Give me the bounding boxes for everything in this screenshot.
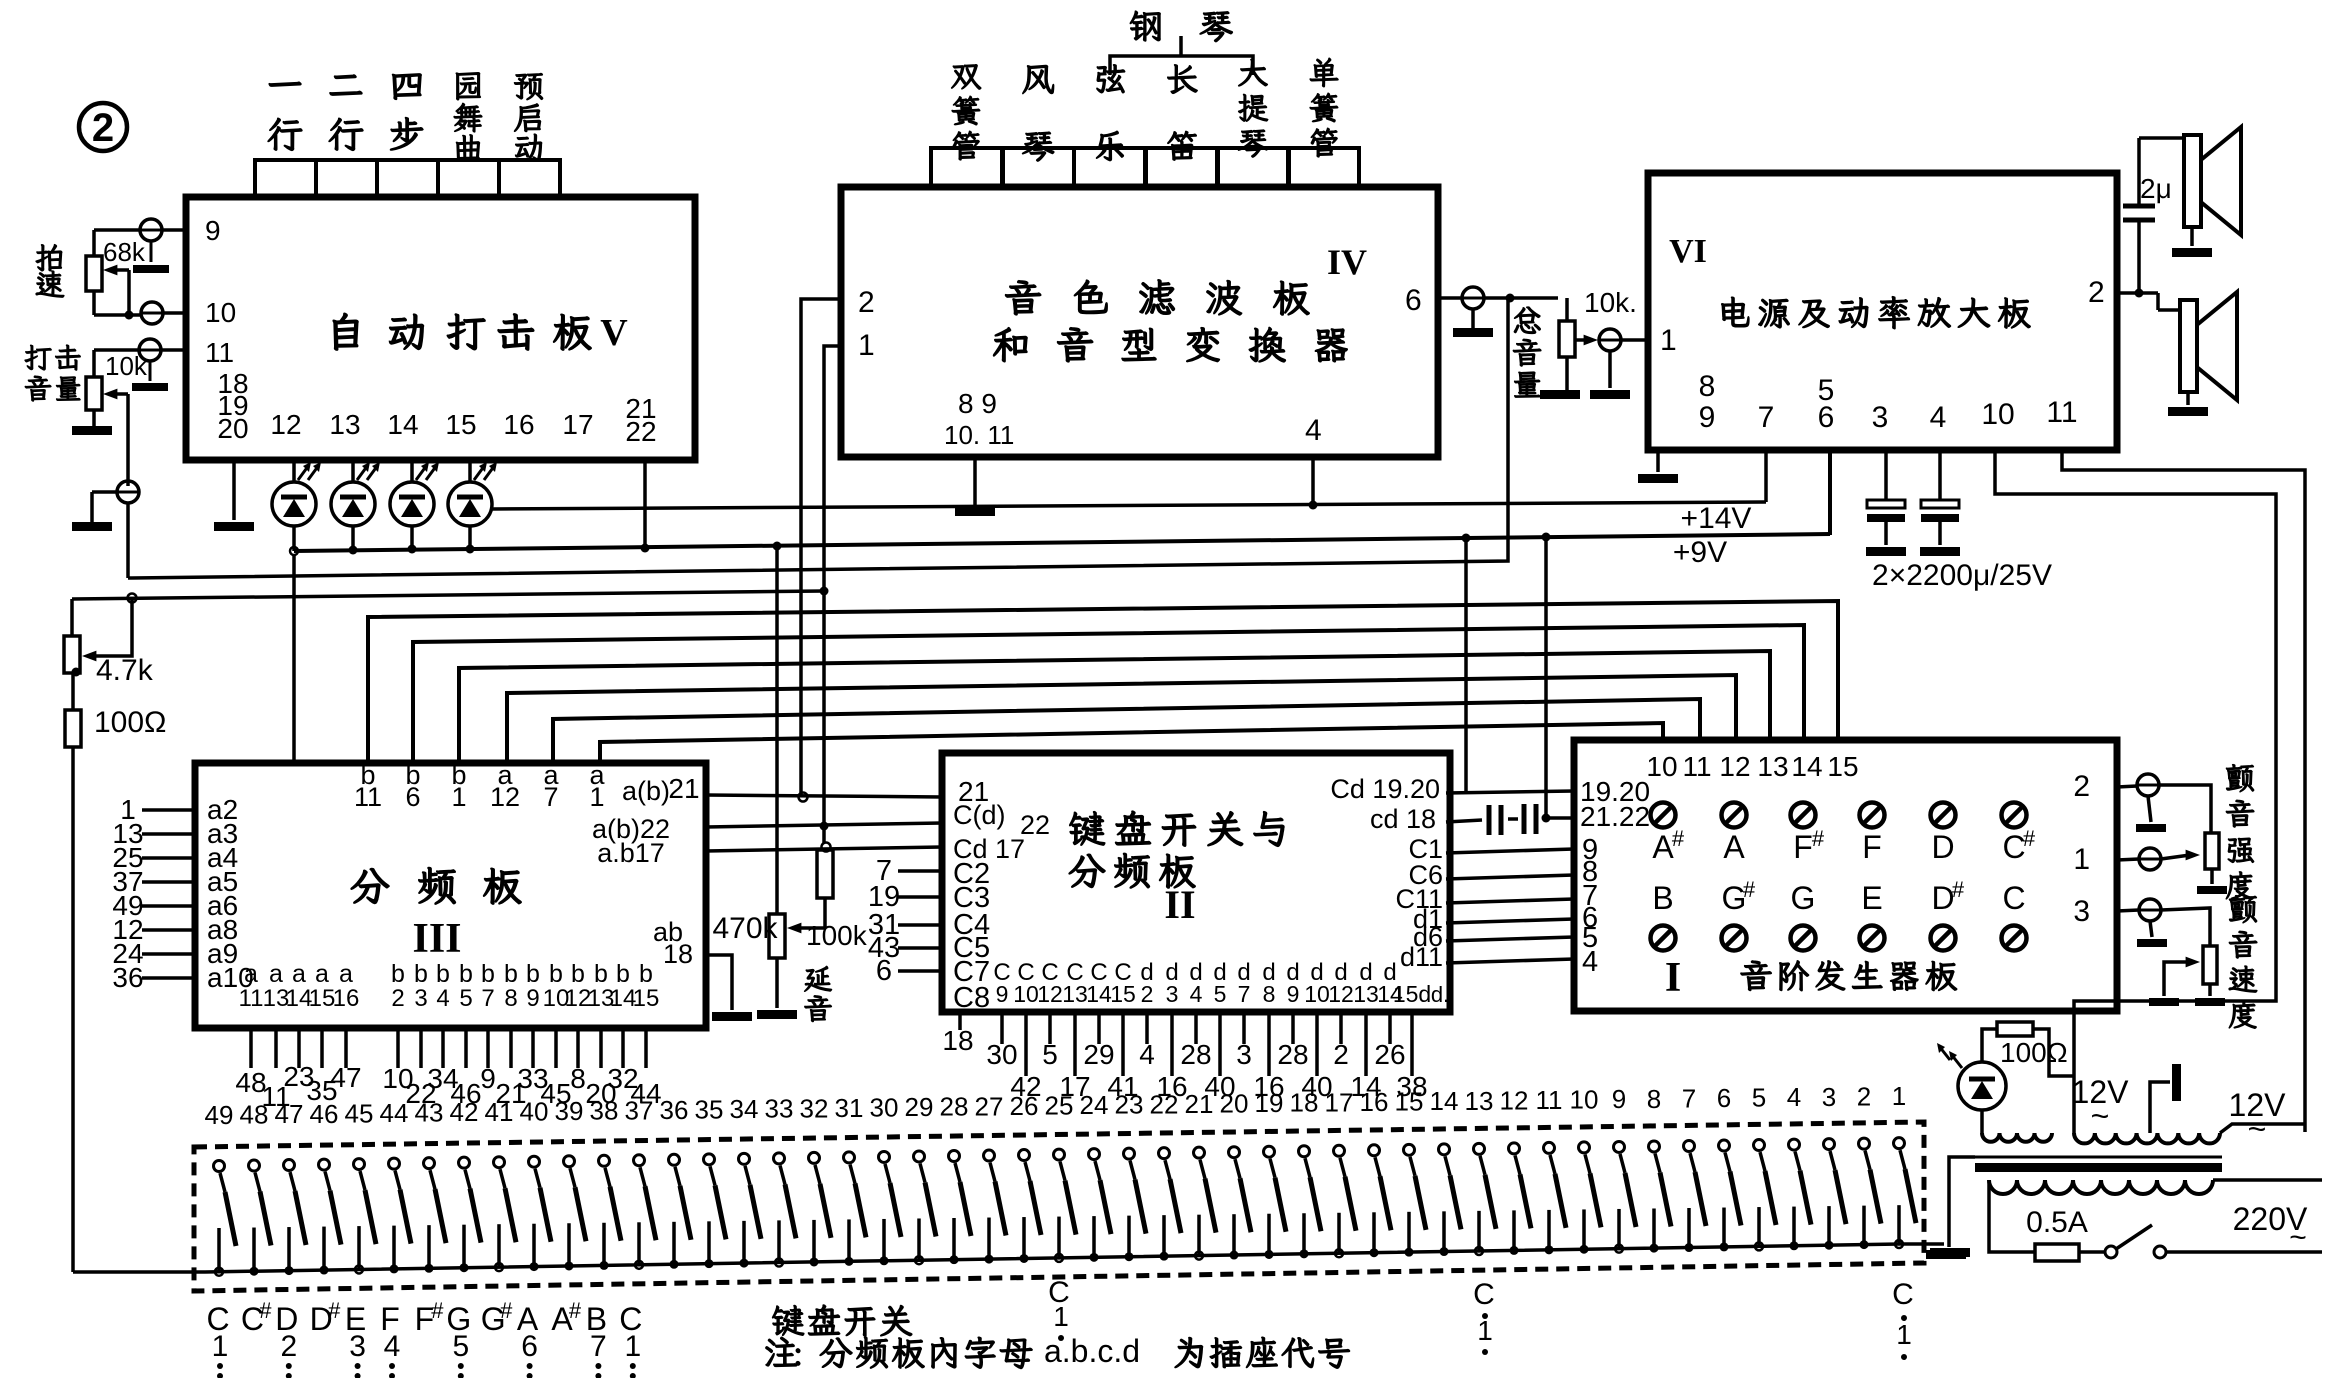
svg-text:31: 31 <box>835 1093 864 1123</box>
label 键盘开关 <box>772 1305 911 1336</box>
svg-text:17: 17 <box>1325 1087 1354 1117</box>
svg-text:7: 7 <box>1238 981 1251 1007</box>
wire core to ground <box>1926 1157 1975 1259</box>
wire pin3 jack to vibrato speed pot <box>2161 908 2210 946</box>
svg-text:#: # <box>431 1298 444 1323</box>
svg-text:a: a <box>315 960 329 988</box>
jack J3 pin11 <box>132 339 186 391</box>
svg-text:17: 17 <box>562 409 593 440</box>
svg-text:b: b <box>526 960 540 988</box>
transformer T secondary 12V winding <box>2074 1133 2220 1143</box>
block II 键盘开关与分频板 (keyboard switch + divider) <box>942 753 1450 1012</box>
label +14V <box>1681 502 1752 535</box>
svg-text:19: 19 <box>1255 1088 1284 1118</box>
svg-text:b: b <box>414 960 428 988</box>
svg-text:3: 3 <box>1236 1039 1252 1070</box>
svg-text:1: 1 <box>1896 1319 1912 1350</box>
svg-text:10: 10 <box>205 297 236 328</box>
wire d11-4 <box>1446 959 1574 963</box>
label 总音量 vertical <box>1513 307 1541 397</box>
svg-text:5: 5 <box>1042 1039 1058 1070</box>
block V pushbuttons (5) on top <box>255 160 560 197</box>
svg-text:42: 42 <box>450 1097 479 1127</box>
svg-text:#: # <box>1672 826 1685 851</box>
svg-text:12: 12 <box>270 409 301 440</box>
switch contacts x49 <box>214 1138 1917 1276</box>
svg-text:+14V: +14V <box>1681 502 1752 535</box>
svg-text:30: 30 <box>986 1039 1017 1070</box>
svg-text:4: 4 <box>1582 946 1598 978</box>
svg-text:100k: 100k <box>806 920 868 951</box>
svg-text:47: 47 <box>275 1099 304 1129</box>
svg-text:35: 35 <box>695 1094 724 1124</box>
block II bottom pin labels C9-C15 d2-d15 <box>993 959 1449 1007</box>
svg-text:#: # <box>328 1298 341 1323</box>
svg-text:4.7k: 4.7k <box>96 654 154 687</box>
svg-text:F: F <box>1793 829 1813 865</box>
svg-text:8: 8 <box>1699 370 1716 403</box>
svg-text:49: 49 <box>205 1100 234 1130</box>
svg-text:a(b): a(b) <box>622 776 670 806</box>
speaker SP1 <box>2172 127 2241 257</box>
svg-text:10: 10 <box>1013 981 1039 1007</box>
block IV pin labels <box>858 284 1422 450</box>
svg-text:III: III <box>412 916 461 962</box>
svg-text:22: 22 <box>1150 1089 1179 1119</box>
svg-text:10: 10 <box>1646 751 1677 782</box>
speaker SP2 <box>2168 292 2237 416</box>
label 220V~ <box>2233 1201 2308 1254</box>
LED D2 <box>331 460 380 551</box>
svg-text:b: b <box>481 960 495 988</box>
wire a.b17 to block II Cd17 <box>706 847 942 851</box>
svg-text:9: 9 <box>996 981 1009 1007</box>
svg-text:1: 1 <box>624 1330 641 1363</box>
svg-text:4: 4 <box>1305 414 1322 447</box>
svg-text:~: ~ <box>2289 1221 2307 1254</box>
block III bottom stubs a-group with switch numbers <box>235 1031 361 1112</box>
svg-text:20: 20 <box>1220 1089 1249 1119</box>
LED D5 pilot <box>1937 1043 2006 1110</box>
jack J7 block I pin2 <box>2073 770 2166 832</box>
svg-text:10k.: 10k. <box>1584 287 1637 318</box>
jack J2 pin10 <box>141 302 186 324</box>
block IV pushbuttons (6) on top <box>931 148 1359 187</box>
svg-text:0.5A: 0.5A <box>2026 1206 2088 1239</box>
svg-text:11: 11 <box>1536 1085 1563 1115</box>
svg-text:2: 2 <box>858 286 875 319</box>
svg-text:#: # <box>500 1298 513 1323</box>
svg-text:8: 8 <box>1647 1084 1661 1114</box>
wire C11-7 <box>1446 899 1574 903</box>
svg-text:15: 15 <box>1110 981 1136 1007</box>
LED D1 <box>272 460 321 551</box>
svg-text:1: 1 <box>1660 324 1677 357</box>
wire d1-6 <box>1446 919 1574 923</box>
wire jack J4 down to bus L2 <box>128 503 132 578</box>
svg-text:#: # <box>569 1298 582 1323</box>
svg-text:b: b <box>594 960 608 988</box>
resistor 100R pilot <box>1997 1022 2068 1068</box>
svg-text:1: 1 <box>212 1330 229 1363</box>
svg-text:1: 1 <box>858 329 875 362</box>
wire a(b)22 to block II C(d)22 <box>706 823 942 827</box>
svg-text:b: b <box>616 960 630 988</box>
wire LED D1 branch down to block III <box>292 555 296 763</box>
svg-text:a: a <box>244 960 258 988</box>
svg-text:4: 4 <box>384 1330 401 1363</box>
block I trimmers bottom row with note labels <box>1651 877 2027 951</box>
resistor 100R <box>65 706 166 747</box>
block III bottom pin labels b2-b15 <box>391 960 659 1012</box>
svg-text:8: 8 <box>570 1063 586 1094</box>
block I top pin labels 10-15 <box>1646 751 1858 782</box>
svg-text:14: 14 <box>1791 751 1822 782</box>
svg-text:IV: IV <box>1327 242 1367 282</box>
svg-text:29: 29 <box>905 1092 934 1122</box>
transformer T secondary pilot winding <box>1982 1133 2052 1142</box>
label C1 right keyboard <box>1473 1278 1495 1355</box>
svg-text:38: 38 <box>590 1096 619 1126</box>
svg-text:5: 5 <box>452 1330 469 1363</box>
label 12V~ right <box>2229 1087 2287 1147</box>
svg-text:16: 16 <box>503 409 534 440</box>
block III bottom pin labels a11-a16 <box>239 960 360 1012</box>
svg-text:15: 15 <box>445 409 476 440</box>
wire pilot LED loop <box>1982 1029 2074 1133</box>
svg-text:6: 6 <box>1717 1083 1731 1113</box>
wire VI pin8/9 to ground <box>1638 450 1678 483</box>
svg-text:12: 12 <box>490 782 520 812</box>
wire bus a7-11 <box>553 699 1700 763</box>
svg-text:14: 14 <box>387 409 418 440</box>
svg-text:7: 7 <box>1682 1083 1696 1113</box>
wire pin20 to ground <box>214 460 254 531</box>
svg-text:18: 18 <box>1290 1088 1319 1118</box>
svg-text:B: B <box>1652 880 1673 916</box>
wire pin2 jack to vibrato depth pot <box>2159 785 2211 833</box>
svg-text:1: 1 <box>451 782 466 812</box>
svg-text:7: 7 <box>1758 401 1775 434</box>
svg-text:36: 36 <box>660 1095 689 1125</box>
svg-text:6: 6 <box>876 955 892 987</box>
svg-text:8: 8 <box>504 985 517 1012</box>
block II left external pins 7 19 31 43 6 <box>868 855 942 987</box>
svg-text:C(d): C(d) <box>953 800 1006 830</box>
resistor 470k <box>712 912 801 1019</box>
svg-text:48: 48 <box>240 1100 269 1130</box>
svg-text:d11: d11 <box>1400 942 1443 972</box>
switch numbers 49-1 <box>205 1081 1907 1130</box>
svg-text:#: # <box>1812 826 1825 851</box>
svg-text:26: 26 <box>1374 1039 1405 1070</box>
svg-text:4: 4 <box>1139 1039 1155 1070</box>
wire +14V rail <box>492 502 1766 509</box>
svg-text:16: 16 <box>1360 1087 1389 1117</box>
svg-text:13: 13 <box>329 409 360 440</box>
block I left pin labels <box>1580 776 1650 978</box>
block III left pin labels a2-a10 <box>112 794 253 993</box>
transformer core <box>1975 1157 2222 1172</box>
svg-text:II: II <box>1164 882 1195 927</box>
svg-text:Cd 19.20: Cd 19.20 <box>1330 774 1440 804</box>
svg-text:11: 11 <box>239 985 264 1012</box>
svg-text:4: 4 <box>436 985 449 1012</box>
svg-text:2: 2 <box>2088 276 2105 309</box>
svg-text:12: 12 <box>1500 1085 1529 1115</box>
svg-text:14: 14 <box>1430 1086 1459 1116</box>
svg-text:44: 44 <box>380 1098 409 1128</box>
svg-text:G: G <box>1791 880 1816 916</box>
svg-text:16: 16 <box>333 985 360 1012</box>
wire C6-8 <box>1446 875 1574 879</box>
svg-text:26: 26 <box>1010 1091 1039 1121</box>
svg-text:b: b <box>549 960 563 988</box>
label C1 mid keyboard <box>1048 1276 1070 1341</box>
svg-text:15: 15 <box>1395 1087 1424 1117</box>
svg-text:b: b <box>459 960 473 988</box>
svg-text:b: b <box>391 960 405 988</box>
wire Cd19.20 to block I 19.20 with +9V drop <box>1446 538 1574 793</box>
block II left pin labels <box>953 776 1050 1014</box>
wire 12V right end <box>2220 1124 2305 1133</box>
svg-text:1: 1 <box>1477 1315 1493 1346</box>
label +9V <box>1673 536 1727 569</box>
svg-text:2: 2 <box>1857 1081 1871 1111</box>
wire VI pin5/6 to +9V rail <box>1828 450 1832 535</box>
page label (2) circled <box>79 103 127 151</box>
svg-text:11: 11 <box>354 782 382 812</box>
svg-text:21: 21 <box>668 773 699 804</box>
svg-text:6: 6 <box>405 782 420 812</box>
svg-text:3: 3 <box>1166 981 1179 1007</box>
wire VI pin10 to 12V winding left <box>1995 450 2276 1133</box>
svg-text:D: D <box>1931 829 1954 865</box>
svg-text:470k: 470k <box>712 912 778 945</box>
svg-text:18: 18 <box>942 1025 973 1056</box>
wire IV pin2 down to line a(b)21 <box>799 299 842 802</box>
svg-text:45: 45 <box>345 1098 374 1128</box>
LED D3 <box>390 460 439 551</box>
label C1 far right <box>1892 1278 1914 1360</box>
capacitor 2u coupling <box>2123 173 2172 220</box>
wire d6-5 <box>1446 937 1574 941</box>
wire VI pin2 to speakers <box>2117 138 2184 310</box>
svg-text:21: 21 <box>1185 1089 1214 1119</box>
block II bottom stubs with numbers <box>942 1012 1427 1102</box>
svg-text:20: 20 <box>217 413 248 444</box>
svg-text:47: 47 <box>330 1062 361 1093</box>
svg-text:21.22: 21.22 <box>1580 801 1650 832</box>
svg-text:V: V <box>600 312 628 354</box>
svg-text:5: 5 <box>1752 1083 1766 1113</box>
LED D4 <box>448 460 497 551</box>
svg-text:32: 32 <box>800 1093 829 1123</box>
svg-text:+9V: +9V <box>1673 536 1727 569</box>
svg-text:2: 2 <box>1333 1039 1349 1070</box>
jack J8 block I pin1 <box>2073 843 2200 876</box>
svg-text:b: b <box>639 960 653 988</box>
svg-text:C: C <box>1892 1278 1914 1311</box>
wire block IV pin4 to +14V <box>1309 457 1318 510</box>
svg-text:I: I <box>1665 955 1681 1001</box>
svg-text:28: 28 <box>1180 1039 1211 1070</box>
svg-text:15d: 15d <box>1393 981 1431 1007</box>
svg-text:10k: 10k <box>105 351 148 381</box>
svg-text:9: 9 <box>205 215 221 246</box>
svg-text:2: 2 <box>391 985 404 1012</box>
wire primary left + fuse 0.5A + switch <box>1989 1180 2322 1261</box>
svg-text:37: 37 <box>625 1095 654 1125</box>
potentiometer 10k 总音量 <box>1540 287 1637 399</box>
svg-text:9: 9 <box>480 1063 496 1094</box>
svg-text:C8: C8 <box>953 982 990 1014</box>
svg-text:12: 12 <box>1328 981 1354 1007</box>
svg-text:a.b17: a.b17 <box>597 838 665 868</box>
svg-text:39: 39 <box>555 1096 584 1126</box>
svg-text:3: 3 <box>414 985 427 1012</box>
wire bus L3 (to 4.7k) <box>72 587 829 603</box>
svg-text:F: F <box>1862 829 1882 865</box>
svg-text:33: 33 <box>765 1094 794 1124</box>
note 注: 分频板内字母a,b,c,d 为插座代号 <box>766 1333 1350 1369</box>
svg-text:28: 28 <box>940 1092 969 1122</box>
wire bus b6-14 <box>413 625 1804 763</box>
svg-text:11: 11 <box>2046 396 2077 429</box>
wire VI pin11 to 12V winding right <box>2062 450 2305 1132</box>
svg-text:3: 3 <box>1822 1082 1836 1112</box>
svg-text:10: 10 <box>1981 398 2014 431</box>
junction dots on L1 <box>290 533 1551 556</box>
block VI pin labels <box>1660 276 2105 434</box>
potentiometer 颤音速度 vibrato speed <box>2149 946 2225 1006</box>
svg-text:11: 11 <box>1682 751 1711 782</box>
svg-text:10: 10 <box>1304 981 1330 1007</box>
capacitor C4 coupling <box>1524 804 1536 834</box>
svg-text:4: 4 <box>1930 401 1947 434</box>
svg-text:8 9: 8 9 <box>958 388 997 419</box>
svg-text:b: b <box>571 960 585 988</box>
svg-text:2: 2 <box>92 106 114 150</box>
svg-text:28: 28 <box>1277 1039 1308 1070</box>
wire bus b1-13 <box>459 651 1770 763</box>
wire cd18 through caps to block I 21.22 <box>1446 537 1574 823</box>
wire block IV pins 8-11 to ground <box>955 457 995 516</box>
label 延音 <box>804 966 831 1021</box>
svg-text:9: 9 <box>1699 401 1716 434</box>
svg-text:15: 15 <box>633 985 660 1012</box>
capacitor C2 2200u <box>1920 450 1960 556</box>
block I 音阶发生器板 (scale generator) <box>1574 740 2117 1011</box>
wire left margin 4.7k chain <box>72 599 73 1272</box>
svg-text:#: # <box>1743 877 1756 902</box>
svg-text:25: 25 <box>1045 1091 1074 1121</box>
wire bus a12-12 <box>507 675 1736 763</box>
svg-text:E: E <box>1861 880 1882 916</box>
wire VI pin7 to +14V rail <box>1764 450 1768 502</box>
svg-text:2×2200μ/25V: 2×2200μ/25V <box>1872 559 2052 592</box>
block II right pin labels <box>1330 774 1443 972</box>
wire +9V / LED bus rail L1 <box>294 450 1830 551</box>
svg-text:22: 22 <box>625 416 656 447</box>
svg-text:7: 7 <box>481 985 494 1012</box>
svg-text:6: 6 <box>521 1330 538 1363</box>
svg-text:40: 40 <box>520 1096 549 1126</box>
svg-text:3: 3 <box>1872 401 1889 434</box>
svg-text:b: b <box>504 960 518 988</box>
svg-text:a: a <box>269 960 283 988</box>
block III bottom stubs b-group with switch numbers <box>382 1031 661 1109</box>
volume pot wiring: jack J5 after IV pin6 <box>1438 287 1558 337</box>
svg-text:~: ~ <box>2248 1111 2267 1147</box>
svg-text:10. 11: 10. 11 <box>944 420 1014 450</box>
block VI 电源及动率放大板 (power supply and amplifier) <box>1648 173 2117 450</box>
svg-text:100Ω: 100Ω <box>94 706 166 739</box>
svg-text:#: # <box>2023 826 2036 851</box>
wire bus b11-15 <box>368 601 1838 763</box>
svg-text:13: 13 <box>1465 1086 1494 1116</box>
block III right pin labels a(b)22 a.b17 <box>592 814 670 868</box>
svg-text:68k: 68k <box>103 237 146 267</box>
resistor 68k 拍速 pot <box>86 230 146 320</box>
button labels 双簧管 风琴 弦乐 长笛 大提琴 单簧管 <box>951 58 1338 161</box>
svg-text:1: 1 <box>589 782 604 812</box>
capacitor C3 coupling <box>1489 805 1501 835</box>
svg-text:9: 9 <box>526 985 539 1012</box>
svg-text:VI: VI <box>1669 233 1707 270</box>
wire ab18 to ground <box>706 955 752 1021</box>
block III top pin labels <box>354 760 700 812</box>
svg-text:6: 6 <box>1405 284 1422 317</box>
svg-text:5: 5 <box>1214 981 1227 1007</box>
transformer T primary 220V winding <box>1989 1180 2213 1194</box>
jack J4 volume out <box>72 481 139 531</box>
svg-text:23: 23 <box>1115 1090 1144 1120</box>
svg-text:41: 41 <box>485 1097 514 1127</box>
svg-text:13: 13 <box>1757 751 1788 782</box>
svg-text:18: 18 <box>663 939 693 969</box>
svg-text:9: 9 <box>1612 1084 1626 1114</box>
svg-text:d.: d. <box>1431 982 1449 1007</box>
svg-text:C: C <box>2002 880 2025 916</box>
svg-text:3: 3 <box>2073 895 2090 928</box>
keyboard dashed box 键盘开关 <box>194 1122 1924 1291</box>
svg-text:7: 7 <box>543 782 558 812</box>
svg-text:30: 30 <box>870 1092 899 1122</box>
svg-text:2: 2 <box>2073 770 2090 803</box>
potentiometer 4.7k <box>64 598 154 687</box>
wire bus L2 (to master volume) <box>132 300 1508 578</box>
potentiometer 颤音强度 vibrato depth <box>2197 833 2227 894</box>
svg-text:12: 12 <box>1719 751 1750 782</box>
svg-text:4: 4 <box>1787 1082 1801 1112</box>
block V 自动打击板 (auto percussion board) <box>186 197 695 460</box>
jack J9 block I pin3 <box>2073 895 2167 947</box>
svg-text:a.b.c.d: a.b.c.d <box>1044 1333 1140 1369</box>
svg-text:29: 29 <box>1083 1039 1114 1070</box>
jack J1 pin9 <box>133 219 186 273</box>
block III bottom-right labels ab 18 <box>653 917 693 969</box>
wire primary right 220V <box>2213 1178 2322 1182</box>
svg-text:10: 10 <box>1570 1085 1599 1115</box>
svg-text:43: 43 <box>415 1098 444 1128</box>
svg-text:a: a <box>339 960 353 988</box>
button labels 一行 二行 四步 园舞曲 预启动 <box>268 73 543 162</box>
keyboard common bus wire <box>73 1244 1970 1272</box>
label 颤音速度 <box>2229 896 2257 1029</box>
svg-text:27: 27 <box>975 1091 1004 1121</box>
svg-text:6: 6 <box>1818 401 1835 434</box>
